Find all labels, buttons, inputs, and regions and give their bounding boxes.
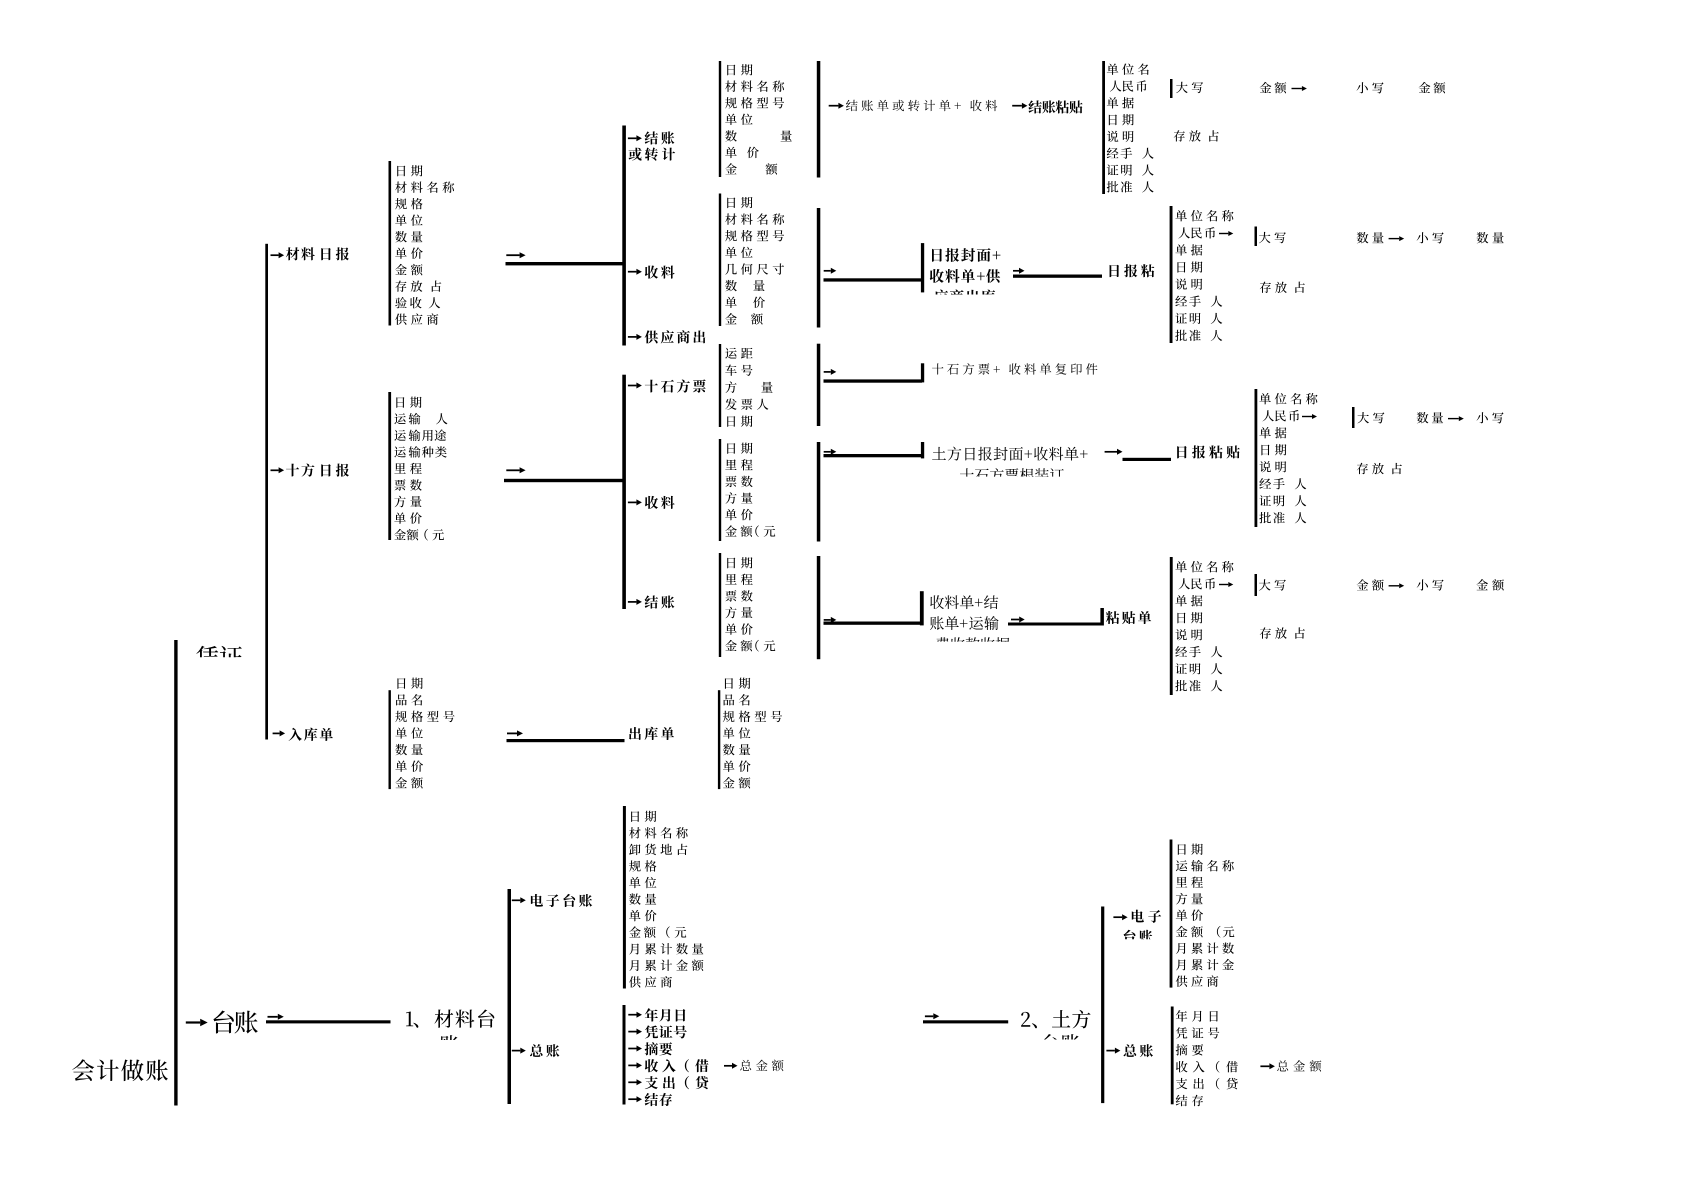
node 结账或转计 [628,135,642,141]
list 结账粘贴 fields [1107,63,1149,74]
wire 材料日报 junction [506,252,525,258]
node set3 数量 arrow [1417,412,1443,423]
node 1、材料台账 [406,1009,494,1027]
node set2 大写 [1259,232,1286,243]
list 总账R fields [1176,1010,1218,1022]
node 电子台账 R [1113,914,1127,920]
list 材料日报 fields [397,165,422,176]
node 总金额 R [1260,1063,1275,1069]
list 收料十方 fields [727,443,752,454]
node 收料 十方日报 [628,499,642,505]
node set4 金额2 [1476,579,1504,591]
list 结账或转计 fields [727,64,752,75]
node 收料单+结账单+运输费收款收据 [930,595,998,609]
wire 结账十方 connector [824,617,837,623]
list 电子台账R fields bar [1170,840,1173,988]
node 结账单或转计单+收料 [829,103,844,109]
node set4 小写 [1417,579,1444,590]
wire 收料十方 connector [824,449,837,455]
node 电子台账 [512,897,526,903]
node 总账 L [512,1048,526,1054]
wire spine vertical [174,640,177,1106]
list 结账十方 fields bar [719,553,721,657]
list 总账L fields bar [623,1005,626,1105]
list 日报粘贴 fields bar [1255,389,1258,527]
node 结账粘贴 [1012,103,1027,109]
node set3 存放占 [1357,463,1402,474]
node set4 大写 bar [1255,574,1258,596]
node set1 大写 bar [1170,79,1173,98]
node 土方日报封面+收料单+十石方票根装订 [932,447,1087,461]
node 日报粘贴 [1177,445,1240,458]
node 十石方票+收料单复印件 [932,363,1097,375]
wire 收料材料 connector [824,268,837,274]
list 结账或转计 fields bar [719,61,721,177]
node 2、土方台账 [1021,1010,1090,1029]
node set4 金额 arrow [1357,579,1384,591]
node 凭证 (clipped) [196,646,242,668]
wire 收料材料 junction bar [817,208,821,328]
wire 入库单 junction [507,730,523,736]
list 日报粘 fields bar [1170,206,1173,343]
list 十方日报 fields bar [388,392,391,540]
node 十石方票 [628,383,642,389]
node 十方日报 [271,467,285,473]
wire 十方日报 junction [506,467,525,473]
node 出库单 [629,727,674,740]
node 收料 材料日报 [628,269,642,275]
node 入库单 [273,730,286,736]
list 结账十方 fields [727,557,752,568]
node set1 小写 [1357,82,1384,93]
node set2 存放占 [1260,282,1305,293]
list 粘贴单 fields bar [1170,557,1173,695]
node 日报封面+收料单+供应商出库 [932,248,1000,262]
list 出库单 fields bar [718,690,720,789]
node 总金额 L [724,1063,738,1069]
node set1 大写 [1176,82,1203,93]
list 十方日报 fields [396,397,421,408]
wire 结账或转计 junction bar [817,61,821,178]
node set4 大写 [1259,579,1286,590]
list 电子台账R fields [1178,844,1203,855]
wire 台账 junction2 [925,1013,939,1019]
node set3 大写 bar [1352,407,1355,428]
wire 收料材料 connector2 [1013,268,1025,274]
list 出库单 fields [725,678,750,689]
list 收料十方 fields bar [719,439,721,541]
node 供应商出 [628,334,642,340]
wire 收料十方 junction bar [817,442,821,542]
wire 收料十方 connector2 [1105,449,1123,455]
node 材料日报 [271,252,285,258]
node set2 大写 bar [1255,227,1258,247]
node set3 小写 [1477,412,1504,423]
list 收料材料 fields [727,197,752,208]
list 十石方票 fields bar [719,344,721,427]
list 电子台账L fields bar [623,806,626,989]
wire 结账十方 connector2 [1011,617,1025,623]
list 十石方票 fields [725,348,752,359]
node list arrow 人民币 J10 [1219,582,1233,587]
wire 十石方票 junction bar [817,344,821,426]
node set3 大写 [1357,412,1384,423]
node 台账 [186,1019,208,1027]
list 电子台账L fields [631,811,656,822]
wire 土方台账 junction bar [1101,907,1104,1104]
list 日报粘 fields [1175,210,1233,221]
wire 十石方票 connector [824,369,837,375]
node 日报粘 [1110,264,1155,277]
list 日报粘贴 fields [1259,393,1317,404]
node list arrow 人民币 [1219,231,1233,236]
wire 凭证 branch vertical [265,244,268,740]
wire 台账 junction [268,1014,284,1020]
node list arrow 人民币 J9 [1302,414,1317,419]
list 收料材料 fields bar [719,194,721,327]
list 入库单 fields [397,678,422,689]
wire 材料台账 junction bar [508,889,512,1104]
node 结账 十方日报 [628,599,642,605]
node set1 存放占 [1174,130,1219,141]
list 总账L fields (bold, arrows) [628,1012,642,1018]
node set2 数量 arrow [1357,232,1384,243]
node set2 数量2 [1477,232,1504,243]
list 入库单 fields bar [389,690,391,789]
list 结账粘贴 fields bar [1102,61,1105,194]
list 总账R fields bar [1171,1007,1174,1105]
list 材料日报 fields bar [389,161,392,326]
node set1 金额 arrow [1260,82,1287,94]
node set2 小写 [1417,232,1444,243]
node root 会计做账 [72,1059,168,1081]
node set1 金额2 [1419,82,1446,94]
node set4 存放占 [1260,627,1305,638]
wire 结账十方 junction bar [817,556,821,659]
node 粘贴单 [1106,611,1151,624]
node 总账 R [1106,1048,1120,1054]
list 粘贴单 fields [1175,561,1233,572]
